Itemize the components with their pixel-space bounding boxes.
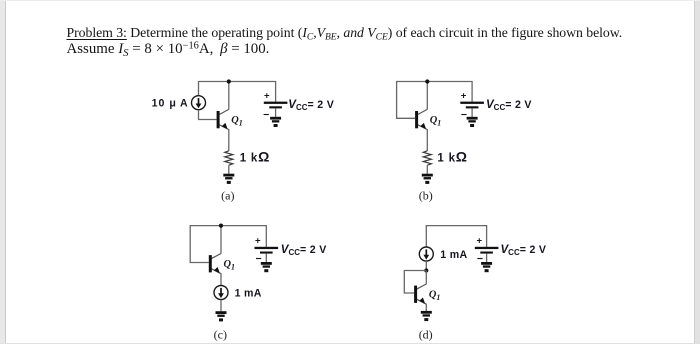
transistor Q1 (a) xyxy=(217,109,229,129)
svg-text:Q1: Q1 xyxy=(429,290,441,302)
page left grey edge xyxy=(0,0,6,344)
wire: rail to current source (d) xyxy=(425,226,427,247)
battery VCC (d) xyxy=(475,247,499,254)
ground: emitter resistor (b) xyxy=(422,174,433,184)
battery VCC (b) xyxy=(460,102,484,109)
wire: collector to rail (c) xyxy=(220,226,222,254)
svg-text:−: − xyxy=(263,109,269,121)
svg-text:+: + xyxy=(461,91,467,102)
ground: battery (d) xyxy=(481,262,492,272)
wire: battery to ground (a) xyxy=(275,108,277,117)
wire: emitter to resistor (b) xyxy=(426,129,428,151)
wire: current source to ground (c) xyxy=(220,300,222,312)
wire: rail to current source (a) xyxy=(198,82,200,96)
svg-text:+: + xyxy=(264,91,270,102)
svg-text:1 kΩ: 1 kΩ xyxy=(240,149,270,165)
page right grey edge xyxy=(694,0,700,344)
ground: battery (b) xyxy=(467,117,478,127)
transistor Q1 (b) xyxy=(415,109,427,129)
svg-text:1 mA: 1 mA xyxy=(440,249,467,261)
svg-text:(d): (d) xyxy=(419,327,433,341)
current source I1 1mA (c) xyxy=(214,286,228,300)
wire: emitter to ground (d) xyxy=(425,304,427,311)
svg-text:VCC= 2 V: VCC= 2 V xyxy=(281,244,327,257)
wire: top rail (d) xyxy=(426,225,488,227)
wire: emitter to current source (c) xyxy=(220,273,222,285)
ground: battery (a) xyxy=(270,117,281,127)
wire: battery to ground (d) xyxy=(486,254,488,263)
svg-text:(c): (c) xyxy=(214,327,227,341)
battery VCC (c) xyxy=(255,247,279,254)
resistor R1 1 kOhm (b) xyxy=(423,151,431,165)
transistor Q1 (d) xyxy=(414,284,426,304)
wire: current source to node (d) xyxy=(425,261,427,271)
wire: rail to battery (d) xyxy=(486,226,488,247)
svg-text:VCC= 2 V: VCC= 2 V xyxy=(501,244,547,257)
svg-text:1 kΩ: 1 kΩ xyxy=(437,149,467,165)
node: collector-base junction dot (d) xyxy=(424,268,428,272)
svg-text:Q1: Q1 xyxy=(224,259,236,271)
ground: emitter resistor (a) xyxy=(223,174,234,184)
svg-text:(a): (a) xyxy=(221,188,234,202)
wire: collector to rail (b) xyxy=(426,82,428,110)
svg-text:1 mA: 1 mA xyxy=(235,287,262,299)
svg-text:(b): (b) xyxy=(419,188,433,202)
wire: rail to battery (a) xyxy=(275,82,277,102)
wire: emitter to resistor (a) xyxy=(228,129,230,151)
svg-text:10 μ A: 10 μ A xyxy=(152,98,189,110)
svg-text:VCC= 2 V: VCC= 2 V xyxy=(486,99,532,112)
svg-text:+: + xyxy=(476,235,482,246)
svg-text:Q1: Q1 xyxy=(231,115,243,127)
wire: battery to ground (c) xyxy=(265,254,267,263)
wire: collector to rail (a) xyxy=(228,82,230,110)
svg-text:+: + xyxy=(255,235,261,246)
svg-text:VCC= 2 V: VCC= 2 V xyxy=(288,99,334,112)
wire: top rail (b) xyxy=(396,81,473,83)
resistor R1 1 kOhm (a) xyxy=(225,151,233,165)
wire: battery to ground (b) xyxy=(471,108,473,117)
ground: below current source (c) xyxy=(216,311,227,321)
page top grey edge xyxy=(0,0,700,1)
problem statement line 2 xyxy=(67,42,270,57)
problem statement line 1 xyxy=(67,26,623,40)
node: collector junction dot (c) xyxy=(219,224,223,228)
transistor Q1 (c) xyxy=(209,254,221,274)
node: collector junction dot (a) xyxy=(227,79,231,83)
wire: current source to base of Q1 (a) xyxy=(199,110,217,120)
wire: resistor to ground (a) xyxy=(228,165,230,174)
wire: rail to battery (c) xyxy=(265,226,267,247)
current source I1 10uA (a) xyxy=(192,96,206,110)
battery VCC (a) xyxy=(264,102,288,109)
ground: emitter (d) xyxy=(421,311,432,321)
wire: base-collector loop (d) xyxy=(404,271,425,294)
node: collector junction dot (b) xyxy=(425,79,429,83)
ground: battery (c) xyxy=(261,262,272,272)
page bottom grey edge xyxy=(0,343,700,344)
wire: resistor to ground (b) xyxy=(426,165,428,174)
svg-text:−: − xyxy=(461,109,467,121)
current source I1 1mA (d) xyxy=(419,247,433,261)
wire: base-collector loop (b) xyxy=(397,82,416,119)
svg-text:−: − xyxy=(256,253,262,265)
wire: base-collector loop (c) xyxy=(190,226,209,263)
wire: top rail (a) xyxy=(198,81,276,83)
wire: top rail (c) xyxy=(190,225,267,227)
wire: node to collector (d) xyxy=(425,271,427,285)
wire: rail to battery (b) xyxy=(471,82,473,102)
svg-text:Q1: Q1 xyxy=(430,115,442,127)
